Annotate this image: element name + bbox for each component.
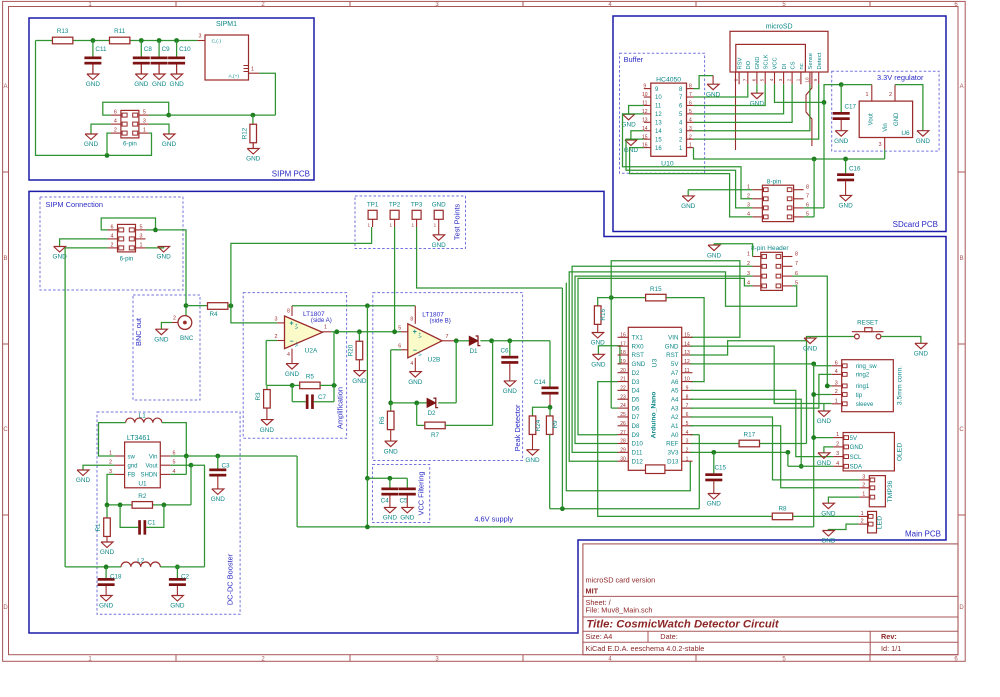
svg-text:R3: R3	[255, 392, 262, 401]
svg-text:C16: C16	[849, 165, 861, 172]
svg-text:GND: GND	[383, 515, 398, 522]
svg-text:SIPM PCB: SIPM PCB	[272, 170, 310, 179]
svg-text:TP2: TP2	[389, 202, 401, 209]
svg-text:5V: 5V	[850, 435, 858, 442]
svg-text:3: 3	[778, 78, 783, 81]
svg-text:tip: tip	[856, 392, 863, 399]
svg-text:1: 1	[324, 325, 327, 331]
svg-text:R1: R1	[95, 523, 102, 532]
svg-text:3: 3	[140, 233, 143, 239]
svg-text:2: 2	[836, 442, 839, 448]
svg-text:Rev:: Rev:	[881, 632, 897, 641]
svg-text:5: 5	[140, 224, 143, 230]
svg-text:(side B): (side B)	[430, 317, 451, 324]
svg-text:C4: C4	[381, 497, 390, 504]
svg-text:D11: D11	[632, 450, 643, 457]
svg-text:GND: GND	[84, 141, 99, 148]
svg-text:Main PCB: Main PCB	[905, 530, 941, 539]
svg-text:5: 5	[806, 212, 809, 218]
svg-text:5: 5	[398, 326, 401, 332]
svg-text:C14: C14	[534, 379, 546, 386]
svg-text:4: 4	[111, 233, 114, 239]
svg-text:R7: R7	[431, 432, 440, 439]
svg-text:R5: R5	[306, 373, 315, 380]
svg-text:14: 14	[684, 341, 690, 347]
svg-text:8: 8	[689, 84, 692, 90]
svg-text:TP1: TP1	[367, 202, 379, 209]
svg-text:GND: GND	[665, 343, 679, 350]
svg-text:Arduino_Nano: Arduino_Nano	[651, 392, 658, 439]
svg-text:3.3V regulator: 3.3V regulator	[877, 73, 924, 82]
svg-text:3: 3	[879, 142, 882, 148]
svg-text:5: 5	[686, 421, 689, 427]
svg-text:1: 1	[390, 222, 393, 227]
svg-text:1: 1	[143, 128, 146, 134]
svg-text:D1: D1	[469, 348, 478, 355]
svg-text:2: 2	[275, 334, 278, 340]
svg-text:12: 12	[684, 359, 690, 365]
svg-text:V−: V−	[294, 341, 299, 347]
svg-text:sleeve: sleeve	[856, 401, 874, 408]
svg-text:3V3: 3V3	[667, 450, 679, 457]
svg-text:23: 23	[620, 394, 626, 400]
svg-text:2: 2	[747, 261, 750, 267]
svg-text:D13: D13	[667, 458, 679, 465]
svg-text:RX0: RX0	[632, 343, 645, 350]
svg-text:18: 18	[620, 350, 626, 356]
svg-text:C9: C9	[162, 46, 171, 53]
svg-text:2: 2	[835, 389, 838, 395]
svg-text:GND: GND	[156, 254, 171, 261]
svg-text:11: 11	[655, 104, 662, 110]
svg-text:3: 3	[689, 126, 692, 132]
svg-text:GND: GND	[681, 203, 696, 210]
svg-text:FB: FB	[128, 473, 136, 479]
svg-text:GND: GND	[632, 361, 646, 368]
svg-text:C1: C1	[148, 520, 157, 527]
svg-text:Sense: Sense	[808, 53, 814, 69]
svg-text:3: 3	[199, 34, 202, 40]
svg-text:4: 4	[287, 352, 290, 358]
svg-text:1: 1	[836, 432, 839, 438]
svg-text:8: 8	[734, 78, 739, 81]
svg-text:GND: GND	[170, 603, 185, 610]
svg-text:9: 9	[643, 84, 646, 90]
svg-text:4: 4	[689, 117, 692, 123]
svg-text:Peak Detector: Peak Detector	[513, 404, 522, 451]
svg-text:C,(-): C,(-)	[212, 38, 222, 44]
svg-text:+: +	[413, 329, 417, 336]
svg-text:6-pin: 6-pin	[123, 140, 137, 147]
svg-text:16: 16	[620, 332, 626, 338]
svg-text:GND: GND	[352, 378, 367, 385]
svg-text:File: Muv8_Main.sch: File: Muv8_Main.sch	[586, 606, 653, 615]
svg-text:5: 5	[689, 109, 692, 115]
svg-text:Size: A4: Size: A4	[586, 632, 613, 641]
svg-text:14: 14	[655, 129, 662, 135]
svg-text:D10: D10	[632, 441, 644, 448]
svg-text:GND: GND	[817, 418, 832, 425]
svg-text:4: 4	[686, 430, 689, 436]
svg-text:1: 1	[368, 222, 371, 227]
svg-text:SIPM1: SIPM1	[216, 21, 237, 28]
svg-text:7: 7	[686, 403, 689, 409]
svg-text:1: 1	[412, 222, 415, 227]
svg-text:2: 2	[862, 482, 865, 488]
svg-text:7: 7	[795, 261, 798, 267]
svg-text:GND: GND	[246, 156, 261, 163]
svg-text:6: 6	[806, 203, 809, 209]
svg-text:ring_sw: ring_sw	[856, 363, 878, 370]
svg-text:SDA: SDA	[850, 464, 863, 471]
svg-text:GND: GND	[834, 138, 849, 145]
svg-text:VCC: VCC	[773, 57, 779, 69]
svg-text:22: 22	[620, 386, 626, 392]
svg-text:GND: GND	[821, 538, 836, 545]
svg-text:A0: A0	[671, 432, 679, 439]
svg-text:1: 1	[686, 456, 689, 462]
svg-text:GND: GND	[707, 252, 722, 259]
svg-text:8: 8	[686, 394, 689, 400]
svg-text:CS: CS	[790, 61, 796, 69]
svg-text:HC4050: HC4050	[656, 76, 681, 83]
svg-text:GND: GND	[838, 203, 853, 210]
svg-text:16: 16	[655, 146, 662, 152]
svg-text:R16: R16	[600, 309, 607, 321]
svg-text:R4: R4	[209, 311, 218, 318]
svg-text:D5: D5	[632, 396, 640, 403]
svg-text:TX1: TX1	[632, 335, 644, 342]
svg-text:Test Points: Test Points	[453, 204, 462, 240]
svg-text:U6: U6	[901, 130, 910, 137]
svg-text:RSV: RSV	[737, 57, 743, 69]
svg-text:A2: A2	[671, 414, 679, 421]
svg-text:4.6V supply: 4.6V supply	[474, 515, 513, 524]
svg-text:D: D	[3, 605, 8, 611]
svg-text:3: 3	[275, 317, 278, 323]
svg-text:A: A	[960, 84, 964, 90]
svg-text:2: 2	[173, 316, 176, 322]
svg-text:6: 6	[689, 101, 692, 107]
svg-text:C6: C6	[500, 348, 509, 355]
svg-text:D2: D2	[632, 370, 640, 377]
svg-text:−: −	[413, 348, 417, 355]
svg-text:GND: GND	[914, 351, 929, 358]
svg-text:Title: CosmicWatch Detector Ci: Title: CosmicWatch Detector Circuit	[586, 618, 780, 630]
svg-text:3: 3	[143, 119, 146, 125]
svg-text:BNC out: BNC out	[134, 318, 143, 346]
svg-text:GND: GND	[707, 501, 722, 508]
svg-text:MIT: MIT	[586, 587, 599, 596]
svg-text:U1: U1	[138, 480, 147, 487]
svg-text:VIN: VIN	[668, 335, 678, 342]
svg-text:3: 3	[862, 475, 865, 481]
svg-text:TP3: TP3	[411, 202, 423, 209]
svg-text:−: −	[289, 338, 293, 345]
svg-text:gnd: gnd	[128, 464, 138, 470]
svg-text:2: 2	[114, 128, 117, 134]
svg-text:R13: R13	[57, 28, 69, 35]
svg-text:17: 17	[620, 341, 626, 347]
svg-text:A1: A1	[671, 423, 679, 430]
svg-text:13: 13	[642, 117, 648, 123]
svg-text:D7: D7	[632, 414, 640, 421]
svg-text:6: 6	[686, 412, 689, 418]
svg-text:6: 6	[835, 360, 838, 366]
svg-text:C3: C3	[222, 462, 231, 469]
svg-text:GND: GND	[76, 477, 91, 484]
svg-text:A3: A3	[671, 405, 679, 412]
svg-text:C5: C5	[399, 497, 408, 504]
svg-text:15: 15	[684, 332, 690, 338]
svg-text:GND: GND	[285, 371, 300, 378]
svg-text:10: 10	[804, 77, 809, 83]
svg-text:D9: D9	[632, 432, 640, 439]
svg-text:RST: RST	[666, 352, 679, 359]
svg-text:1: 1	[689, 143, 692, 149]
svg-text:C2: C2	[181, 574, 190, 581]
svg-text:5: 5	[795, 281, 798, 287]
svg-text:2: 2	[111, 242, 114, 248]
svg-text:3.5mm conn.: 3.5mm conn.	[897, 366, 904, 405]
svg-text:V−: V−	[417, 350, 422, 356]
svg-text:microSD card version: microSD card version	[586, 575, 656, 584]
svg-text:D: D	[959, 605, 964, 611]
svg-text:R12: R12	[242, 127, 249, 139]
svg-text:VCC Filtering: VCC Filtering	[417, 472, 426, 516]
svg-text:8: 8	[410, 317, 413, 323]
svg-text:SHDN: SHDN	[140, 473, 157, 479]
svg-text:28: 28	[620, 439, 626, 445]
svg-text:C7: C7	[318, 394, 327, 401]
svg-text:Vin: Vin	[149, 454, 158, 460]
svg-text:5: 5	[143, 110, 146, 116]
svg-text:REF: REF	[666, 441, 679, 448]
svg-text:U2A: U2A	[305, 348, 318, 355]
svg-text:Detect: Detect	[817, 52, 823, 69]
svg-text:1: 1	[251, 67, 254, 73]
svg-text:D3: D3	[632, 379, 640, 386]
svg-text:DC-DC Booster: DC-DC Booster	[225, 553, 234, 605]
svg-text:A: A	[3, 84, 7, 90]
svg-text:GND: GND	[850, 444, 864, 451]
svg-text:8: 8	[287, 308, 290, 314]
svg-text:10: 10	[642, 92, 648, 98]
svg-text:6-pin: 6-pin	[120, 255, 134, 262]
svg-text:GND: GND	[621, 122, 636, 129]
svg-text:10: 10	[655, 95, 662, 101]
svg-text:ring1: ring1	[856, 383, 870, 390]
svg-text:27: 27	[620, 430, 626, 436]
svg-text:RESET: RESET	[857, 320, 878, 327]
svg-text:1: 1	[866, 92, 869, 98]
svg-text:26: 26	[620, 421, 626, 427]
svg-text:TMP36: TMP36	[887, 480, 894, 502]
svg-text:30: 30	[620, 456, 626, 462]
svg-text:+: +	[289, 320, 293, 327]
svg-text:GND: GND	[817, 460, 832, 467]
svg-text:R2: R2	[138, 493, 147, 500]
svg-text:D8: D8	[632, 423, 640, 430]
svg-text:GND: GND	[408, 379, 423, 386]
svg-text:SIPM Connection: SIPM Connection	[46, 200, 104, 209]
svg-text:6: 6	[111, 224, 114, 230]
svg-text:V+: V+	[417, 332, 422, 338]
svg-text:GND: GND	[750, 100, 765, 107]
svg-text:19: 19	[620, 359, 626, 365]
svg-text:25: 25	[620, 412, 626, 418]
svg-text:4: 4	[747, 281, 750, 287]
svg-text:10: 10	[684, 377, 690, 383]
svg-text:R17: R17	[744, 432, 756, 439]
svg-text:C: C	[3, 427, 8, 433]
svg-text:U2B: U2B	[428, 357, 441, 364]
svg-text:1: 1	[861, 511, 864, 517]
svg-text:GND: GND	[169, 81, 184, 88]
svg-text:7: 7	[689, 92, 692, 98]
svg-text:A7: A7	[671, 370, 679, 377]
svg-text:C15: C15	[715, 465, 727, 472]
svg-text:R9: R9	[552, 420, 559, 429]
svg-text:GND: GND	[755, 57, 761, 70]
svg-text:20: 20	[620, 368, 626, 374]
svg-text:15: 15	[655, 137, 662, 143]
svg-text:GND: GND	[503, 388, 518, 395]
svg-text:7: 7	[446, 334, 449, 340]
svg-text:DO: DO	[746, 60, 752, 69]
svg-text:SCL: SCL	[850, 454, 862, 461]
svg-text:A4: A4	[671, 396, 679, 403]
svg-text:GND: GND	[100, 549, 115, 556]
svg-text:1: 1	[434, 222, 437, 227]
svg-text:Vout: Vout	[869, 113, 875, 125]
svg-text:29: 29	[620, 447, 626, 453]
svg-text:GND: GND	[400, 515, 415, 522]
svg-text:GND: GND	[432, 242, 447, 249]
svg-text:GND: GND	[211, 496, 226, 503]
svg-text:A,(+): A,(+)	[229, 74, 240, 80]
svg-text:3: 3	[835, 381, 838, 387]
svg-text:BNC: BNC	[180, 335, 194, 342]
svg-text:GND: GND	[154, 336, 169, 343]
svg-text:GND: GND	[821, 510, 836, 517]
svg-text:7: 7	[806, 194, 809, 200]
svg-text:microSD: microSD	[766, 24, 793, 31]
svg-text:GND: GND	[152, 81, 167, 88]
svg-text:SDcard PCB: SDcard PCB	[893, 220, 938, 229]
svg-text:12: 12	[655, 112, 662, 118]
svg-text:C17: C17	[845, 104, 857, 111]
svg-text:5: 5	[760, 78, 765, 81]
svg-text:1: 1	[747, 251, 750, 257]
svg-text:C8: C8	[144, 46, 153, 53]
svg-text:4: 4	[836, 461, 839, 467]
svg-text:6: 6	[795, 271, 798, 277]
svg-text:B: B	[3, 256, 7, 262]
svg-text:U3: U3	[652, 358, 659, 367]
svg-text:GND: GND	[99, 603, 114, 610]
svg-text:L2: L2	[137, 558, 145, 565]
svg-text:B: B	[960, 256, 964, 262]
svg-text:A5: A5	[671, 388, 679, 395]
svg-text:9: 9	[813, 78, 818, 81]
svg-text:C10: C10	[179, 46, 191, 53]
svg-text:LT3461: LT3461	[127, 435, 150, 442]
svg-text:RST: RST	[632, 352, 645, 359]
svg-text:3: 3	[836, 451, 839, 457]
svg-text:D6: D6	[632, 405, 640, 412]
svg-text:SCLK: SCLK	[763, 54, 769, 69]
svg-text:GND: GND	[803, 345, 818, 352]
svg-text:1: 1	[862, 492, 865, 498]
svg-text:11: 11	[684, 368, 689, 374]
svg-text:DI: DI	[782, 63, 788, 69]
svg-text:GND: GND	[432, 202, 446, 209]
svg-text:GND: GND	[384, 448, 399, 455]
svg-text:C18: C18	[110, 574, 122, 581]
svg-text:Vin: Vin	[883, 123, 889, 132]
svg-text:GND: GND	[162, 141, 177, 148]
svg-text:1: 1	[140, 242, 143, 248]
svg-text:LED: LED	[877, 516, 884, 529]
svg-text:4: 4	[114, 119, 117, 125]
svg-text:9: 9	[686, 386, 689, 392]
svg-text:2: 2	[889, 92, 892, 98]
svg-text:4: 4	[769, 78, 774, 81]
svg-text:24: 24	[620, 403, 626, 409]
svg-text:7: 7	[742, 78, 747, 81]
svg-text:Vout: Vout	[145, 464, 157, 470]
svg-text:V+: V+	[294, 323, 299, 329]
svg-text:6: 6	[114, 110, 117, 116]
svg-text:Amplification: Amplification	[336, 387, 345, 429]
svg-text:D2: D2	[427, 410, 436, 417]
svg-text:D12: D12	[632, 458, 644, 465]
svg-text:3: 3	[747, 271, 750, 277]
svg-text:A6: A6	[671, 379, 679, 386]
svg-text:R20: R20	[347, 344, 354, 356]
svg-text:8-pin Header: 8-pin Header	[751, 245, 789, 252]
svg-text:R11: R11	[114, 28, 126, 35]
svg-text:1: 1	[835, 398, 838, 404]
svg-text:2: 2	[689, 134, 692, 140]
svg-text:2: 2	[787, 78, 792, 81]
svg-text:OLED: OLED	[897, 443, 904, 462]
svg-text:13: 13	[684, 350, 690, 356]
svg-text:1: 1	[795, 78, 800, 81]
svg-text:GND: GND	[525, 457, 540, 464]
svg-text:GND: GND	[591, 362, 606, 369]
svg-text:R8: R8	[778, 505, 787, 512]
svg-text:sw: sw	[128, 454, 136, 460]
svg-text:2: 2	[686, 447, 689, 453]
svg-text:GND: GND	[134, 81, 149, 88]
svg-text:8-pin: 8-pin	[767, 179, 782, 186]
svg-text:5V: 5V	[671, 361, 679, 368]
svg-text:4: 4	[410, 361, 413, 367]
svg-text:R15: R15	[650, 286, 662, 293]
svg-text:GND: GND	[86, 81, 101, 88]
svg-text:C11: C11	[95, 46, 107, 53]
svg-text:GND: GND	[260, 427, 275, 434]
svg-text:R24: R24	[535, 419, 542, 431]
svg-text:GND: GND	[916, 138, 931, 145]
svg-text:6: 6	[751, 78, 756, 81]
svg-text:2: 2	[861, 519, 864, 525]
svg-text:(side A): (side A)	[311, 317, 332, 324]
svg-text:KiCad E.D.A. eeschema 4.0.2-s: KiCad E.D.A. eeschema 4.0.2-stable	[586, 644, 705, 653]
svg-text:D4: D4	[632, 388, 640, 395]
